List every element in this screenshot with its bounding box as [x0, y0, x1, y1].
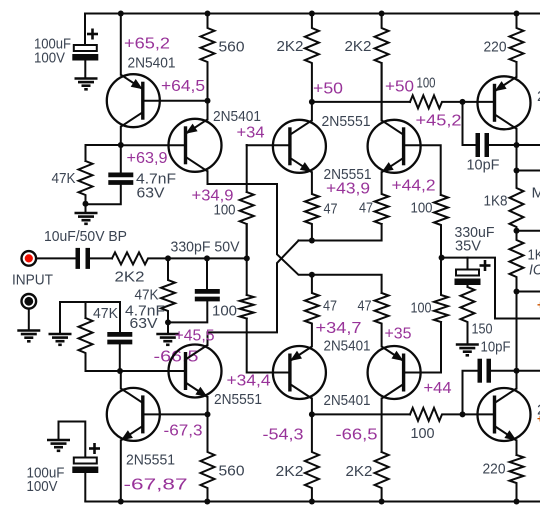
- wire X coupling from lower current source: [208, 241, 299, 346]
- junction 47K/4.7nF ground node: [83, 201, 89, 207]
- junction 2K2 / Q3 collector node +50: [309, 99, 315, 105]
- junction Q3' collector node: [309, 411, 315, 417]
- wire Q6 base node up to 10pF: [463, 371, 478, 415]
- wire Q1 base to node +64,5: [143, 100, 208, 102]
- wire node -66,5 to Q2' base: [86, 370, 186, 372]
- svg-text:2N5401: 2N5401: [128, 55, 176, 72]
- svg-text:100: 100: [212, 303, 237, 320]
- wire Q1 collector down to node +63,9: [120, 127, 122, 145]
- svg-text:100: 100: [411, 300, 432, 317]
- wire bottom supply rail -67V: [85, 501, 540, 503]
- wire +34 node corner: [246, 145, 248, 192]
- svg-text:IC: IC: [529, 262, 540, 279]
- svg-text:M: M: [532, 185, 540, 202]
- resistor 100 upper middle: [240, 192, 254, 258]
- wire node +63,9 to Q2 base: [121, 144, 186, 146]
- svg-text:+50: +50: [385, 79, 414, 96]
- svg-text:560: 560: [219, 39, 245, 56]
- resistor 1K right spine: [510, 231, 524, 292]
- capacitor 10pF bottom (plates): [480, 359, 489, 383]
- ground below input shunt network: [156, 334, 179, 345]
- wire rail to C1 top: [84, 14, 86, 46]
- wire R100 to Q5 base: [463, 101, 495, 103]
- svg-text:63V: 63V: [130, 315, 158, 332]
- transistor Q3' 2N5401 lower pair left: [273, 346, 326, 399]
- wire jack ground lead: [28, 309, 30, 330]
- svg-text:+45,2: +45,2: [416, 113, 462, 130]
- svg-text:-67,87: -67,87: [124, 477, 188, 494]
- junction rail / 560 bottom: [204, 499, 210, 505]
- junction input node A (47K): [165, 255, 171, 261]
- junction rail / Q1' emitter: [118, 499, 124, 505]
- wire X coupling from upper current source: [208, 171, 382, 293]
- input jack ground pin: [22, 294, 37, 309]
- ground bottom bias network: [49, 334, 72, 345]
- svg-text:2N5551: 2N5551: [322, 113, 371, 130]
- wire 10pF bottom to collector node and edge: [490, 370, 540, 372]
- wire Q1' emitter to rail: [120, 440, 122, 501]
- junction output line 3: [514, 228, 520, 234]
- resistor 100 lower right vertical: [434, 258, 448, 322]
- junction rail / 2K2 bottom first: [309, 499, 315, 505]
- svg-text:+64,5: +64,5: [161, 78, 205, 95]
- svg-text:47K: 47K: [135, 287, 159, 304]
- resistor 560 bottom: [201, 414, 215, 501]
- svg-text:-66,5: -66,5: [336, 427, 378, 444]
- svg-text:+35: +35: [385, 326, 412, 343]
- resistor 100 bottom horizontal: [410, 408, 463, 421]
- capacitor 4.7nF top (plates): [108, 175, 133, 183]
- transistor Q3 2N5551 upper pair left: [273, 120, 326, 173]
- junction upper tail / 47: [309, 238, 315, 244]
- resistor 100 upper right vertical: [434, 195, 448, 258]
- svg-text:100V: 100V: [27, 478, 58, 495]
- svg-text:63V: 63V: [137, 185, 165, 202]
- junction lower tail / 47: [309, 272, 315, 278]
- capacitor 330pF (plates): [195, 291, 220, 299]
- svg-text:2N5551: 2N5551: [214, 391, 262, 408]
- wire Q3 base from node +34: [247, 144, 290, 146]
- svg-text:47K: 47K: [93, 305, 118, 322]
- svg-text:INPUT: INPUT: [12, 272, 53, 289]
- capacitor 4.7nF bottom (plates): [107, 334, 132, 342]
- transistor Q1' 2N5551 bottom-left: [107, 388, 160, 441]
- wire 330pF top lead: [206, 258, 208, 289]
- resistor 560 top: [201, 14, 215, 101]
- resistor 47 lower right: [375, 293, 389, 346]
- transistor Q4' 2N5401 lower pair right: [368, 346, 421, 399]
- wire output stub 3 to edge: [517, 230, 540, 232]
- svg-text:+50: +50: [313, 81, 343, 98]
- svg-text:100: 100: [411, 425, 435, 442]
- svg-text:330pF 50V: 330pF 50V: [171, 239, 240, 256]
- svg-text:+34,7: +34,7: [316, 320, 362, 337]
- resistor 47 upper right: [375, 172, 389, 224]
- junction rail / 220 bottom: [514, 499, 520, 505]
- wire bias tap to edge: [495, 318, 540, 320]
- svg-text:47K: 47K: [52, 170, 76, 187]
- wire ground jog to C bottom: [59, 422, 86, 458]
- ground below input jack: [17, 331, 40, 342]
- resistor 220 bottom: [510, 455, 524, 502]
- resistor 47K top-left: [79, 161, 93, 204]
- ground above bottom 100uF: [47, 440, 70, 451]
- svg-text:10pF: 10pF: [467, 157, 500, 174]
- resistor 2K2 bottom second: [375, 452, 389, 502]
- junction rail / R 2K2 second: [379, 11, 385, 17]
- resistor 2K2 input series: [112, 252, 168, 264]
- svg-text:2K2: 2K2: [277, 38, 304, 55]
- resistor 47 lower left: [305, 275, 319, 346]
- wire spine 145-170: [516, 145, 518, 171]
- svg-text:47: 47: [324, 201, 338, 218]
- junction output line 2: [514, 168, 520, 174]
- resistor 100 top horizontal: [410, 95, 463, 108]
- capacitor 10pF top (plates): [478, 133, 487, 157]
- svg-text:100: 100: [411, 200, 433, 217]
- wire output stub 2 to edge: [517, 170, 540, 172]
- svg-text:47: 47: [359, 200, 373, 217]
- wire upper 100 to input node: [246, 224, 248, 258]
- capacitor 100uF/100V bottom-left: [72, 443, 100, 502]
- wire ground stub below 47K: [85, 204, 87, 212]
- transistor Q5 PNP top-right: [478, 76, 531, 129]
- svg-text:2N5401: 2N5401: [324, 338, 371, 355]
- wire spine 291-370: [516, 292, 518, 371]
- ground below C1: [75, 79, 98, 90]
- svg-text:47: 47: [323, 298, 337, 315]
- transistor Q2 2N5401: [169, 119, 222, 172]
- svg-text:2K2: 2K2: [115, 269, 145, 286]
- resistor 47 upper left: [305, 172, 319, 240]
- wire top supply rail +65V: [85, 13, 540, 15]
- svg-text:+63,9: +63,9: [127, 150, 168, 167]
- wire Q4' collector down to 2K2: [381, 399, 383, 453]
- wire Q1' base to node -67,3: [143, 413, 208, 415]
- transistor Q2' 2N5551 bottom: [169, 345, 222, 398]
- wire Q4' base right then up: [404, 322, 441, 373]
- wire Q5 base node down to 10pF: [463, 102, 476, 145]
- svg-text:2N5401: 2N5401: [324, 392, 371, 409]
- junction Q5 collector / output line 1: [514, 142, 520, 148]
- wire jack to 10uF: [36, 257, 75, 259]
- svg-text:35V: 35V: [455, 238, 481, 255]
- junction Q6 base node: [460, 411, 466, 417]
- wire output stub 4 to edge: [517, 291, 540, 293]
- wire node +63,9 left to R 47K top: [86, 145, 121, 161]
- svg-text:47: 47: [358, 298, 372, 315]
- wire output stub 1 to edge: [517, 144, 540, 146]
- resistor 150: [461, 287, 475, 344]
- svg-text:560: 560: [219, 463, 245, 480]
- svg-text:220: 220: [484, 39, 507, 56]
- wire Q2' emitter down to node -67,3: [207, 397, 209, 414]
- svg-text:+65,2: +65,2: [124, 36, 170, 53]
- wire bottom bias ground link: [60, 302, 120, 334]
- svg-text:10pF: 10pF: [481, 339, 511, 356]
- junction rail / R 2K2 first: [309, 11, 315, 17]
- wire 330pF bottom lead: [168, 301, 207, 323]
- junction node +64,5 (Q1 base / 560 / Q2 emitter): [205, 98, 211, 104]
- wire lower collector node to R100: [312, 413, 410, 415]
- wire Q6 emitter to 220: [516, 441, 518, 456]
- svg-text:100: 100: [214, 202, 236, 219]
- transistor Q6 NPN bottom-right: [478, 388, 531, 441]
- resistor 2K2 top first: [305, 14, 319, 102]
- wire input line to base stoppers: [207, 257, 247, 259]
- wire R100 to Q6 base: [463, 413, 495, 415]
- junction Q6 collector / 10pF node: [514, 368, 520, 374]
- wire Q4 base right then down: [404, 145, 441, 195]
- junction rail / Q1 emitter: [118, 11, 124, 17]
- svg-text:-54,3: -54,3: [263, 427, 304, 444]
- wire upper tail line: [299, 224, 382, 241]
- svg-text:2K2: 2K2: [345, 38, 372, 55]
- junction node -67,3: [205, 411, 211, 417]
- svg-text:1K8: 1K8: [484, 193, 508, 210]
- wire Q1' collector up to node -66,5: [120, 371, 122, 388]
- junction output line 4: [514, 289, 520, 295]
- svg-text:2N5401: 2N5401: [213, 108, 261, 125]
- wire 47K bottom top lead: [85, 302, 87, 318]
- wire 4.7nF bottom to ground node: [86, 184, 121, 204]
- transistor Q4 2N5551 upper pair right: [368, 120, 421, 173]
- wire Q5 collector down: [516, 129, 518, 145]
- wire 10pF to Q5 collector node: [488, 144, 517, 146]
- cut device label at right edge bottom: [537, 402, 540, 426]
- svg-text:2K2: 2K2: [276, 463, 304, 480]
- wire 4.7nF bottom lead: [119, 344, 121, 372]
- junction rail / R 560 top: [205, 11, 211, 17]
- ground below 47K/4.7nF top network: [75, 213, 98, 224]
- wire Q1 emitter to rail: [120, 14, 122, 75]
- svg-text:-67,3: -67,3: [164, 423, 203, 440]
- wire 10uF to 2K2: [90, 257, 112, 259]
- svg-text:10uF/50V BP: 10uF/50V BP: [44, 228, 127, 245]
- wire Q6 collector up: [516, 371, 518, 389]
- wire Q5 emitter to 220: [516, 62, 518, 77]
- resistor 47K input shunt: [161, 258, 175, 322]
- wire lower 100 to Q3' base: [247, 319, 290, 373]
- junction Q5 base node: [460, 99, 466, 105]
- junction input ground node: [165, 319, 171, 325]
- wire Q3' collector down to node: [311, 399, 313, 415]
- junction rail / R 220 top: [514, 11, 520, 17]
- svg-text:+45,5: +45,5: [175, 328, 215, 345]
- svg-text:+43,9: +43,9: [326, 181, 370, 198]
- wire 4.7nF top lead: [120, 145, 122, 173]
- resistor 47K bottom-left: [79, 318, 93, 371]
- wire ground stub input: [167, 322, 169, 333]
- junction node +63,9: [118, 142, 124, 148]
- wire input node to lower 100: [246, 258, 248, 295]
- svg-text:2N5551: 2N5551: [126, 452, 175, 469]
- wire 330uF branch top: [442, 258, 495, 319]
- resistor 2K2 bottom first: [305, 414, 319, 501]
- ground below 150: [456, 345, 479, 356]
- resistor 100 lower middle: [240, 295, 254, 319]
- svg-text:+34,4: +34,4: [227, 373, 271, 390]
- capacitor 10uF/50V BP input (plates): [78, 248, 88, 269]
- svg-text:220: 220: [483, 461, 506, 478]
- wire +50 node to R100: [312, 101, 410, 103]
- wire Q4 collector up to 2K2 second: [381, 63, 383, 120]
- svg-text:150: 150: [472, 321, 493, 338]
- junction input node B (330pF): [204, 255, 210, 261]
- resistor 1K8 right spine: [510, 171, 524, 231]
- wire Q2 emitter up to node +64,5: [207, 101, 209, 120]
- svg-text:+34: +34: [237, 125, 265, 142]
- wire input line to 330pF node: [168, 257, 207, 259]
- svg-text:2K2: 2K2: [346, 463, 373, 480]
- resistor 2K2 top second: [375, 14, 389, 121]
- capacitor 330uF/35V: [455, 260, 491, 287]
- junction input node C (stoppers): [244, 255, 250, 261]
- capacitor C1 100uF/100V top-left: [72, 29, 98, 79]
- wire Q3 collector up to +50 node: [311, 102, 313, 120]
- junction rail / 2K2 bottom second: [379, 499, 385, 505]
- resistor 220 top: [510, 14, 524, 77]
- junction node -66,5: [117, 368, 123, 374]
- wire 330uF stub: [467, 258, 469, 270]
- svg-text:100: 100: [417, 75, 436, 92]
- svg-text:+44,2: +44,2: [392, 178, 436, 195]
- svg-text:+44: +44: [424, 380, 452, 397]
- input jack signal pin: [22, 251, 37, 266]
- svg-text:100V: 100V: [34, 50, 65, 67]
- transistor Q1 2N5401 top-left: [107, 74, 160, 127]
- junction Q4 base node / 330uF branch: [439, 255, 445, 261]
